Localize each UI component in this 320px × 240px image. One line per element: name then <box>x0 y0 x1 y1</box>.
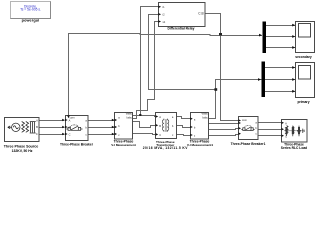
svg-text:V-I Measurement1: V-I Measurement1 <box>187 143 214 147</box>
svg-text:C.B: C.B <box>198 12 203 16</box>
svg-text:Three-Phase Breaker: Three-Phase Breaker <box>60 142 94 146</box>
svg-text:com: com <box>242 119 247 122</box>
svg-text:A: A <box>36 119 38 123</box>
svg-text:Ts = 5e-005 s.: Ts = 5e-005 s. <box>20 8 41 12</box>
svg-text:A: A <box>159 115 161 119</box>
svg-text:C: C <box>69 132 71 136</box>
svg-text:powergui: powergui <box>22 18 40 22</box>
svg-text:A: A <box>69 118 71 122</box>
svg-text:132KV, 50 Hz: 132KV, 50 Hz <box>12 149 33 153</box>
svg-text:V-I Measurement: V-I Measurement <box>111 143 136 147</box>
svg-text:Three-Phase Breaker1: Three-Phase Breaker1 <box>231 142 266 146</box>
svg-text:Iabc: Iabc <box>202 115 208 119</box>
svg-text:B: B <box>36 125 38 129</box>
svg-text:Series RLC Load: Series RLC Load <box>281 146 307 150</box>
svg-text:B: B <box>159 124 161 128</box>
svg-text:primary: primary <box>297 100 309 104</box>
svg-text:C: C <box>159 133 161 137</box>
svg-text:Differential Relay: Differential Relay <box>168 27 195 31</box>
svg-text:C: C <box>36 132 38 136</box>
svg-text:Iabc: Iabc <box>127 116 133 120</box>
svg-text:A: A <box>285 121 287 125</box>
svg-text:20/16 MVA, 132/11.5 KV: 20/16 MVA, 132/11.5 KV <box>143 146 188 150</box>
svg-text:secondary: secondary <box>295 55 312 59</box>
